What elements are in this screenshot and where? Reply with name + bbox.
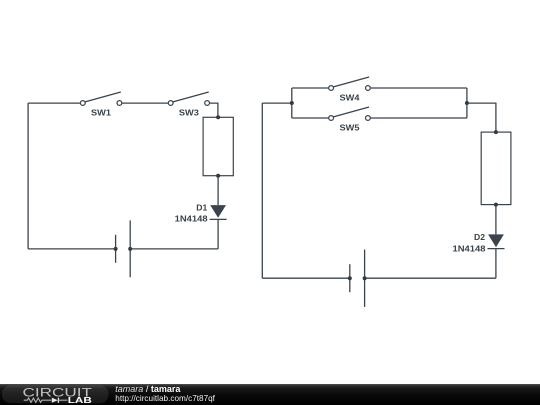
wire top rail to SW4 bbox=[292, 87, 331, 89]
node junction dot at right connector bbox=[465, 101, 469, 105]
node junction dot at V1 positive bbox=[128, 247, 132, 251]
wire bottom rail from SW5 to right connector bbox=[368, 117, 467, 119]
wire diode D2 to bottom rail bbox=[495, 249, 497, 278]
wire left stub to switch bank bbox=[262, 102, 292, 104]
switch SW4 bbox=[329, 77, 371, 103]
anode triangle of D2 bbox=[488, 234, 504, 247]
node junction dot at V2 negative bbox=[348, 276, 352, 280]
wire right connector of switch bank bbox=[466, 88, 468, 118]
terminal 1 of SW1 bbox=[80, 101, 85, 106]
logo resistor zigzag glyph bbox=[24, 398, 52, 402]
resistor R1 bbox=[203, 117, 233, 175]
lever of SW5 bbox=[333, 107, 369, 117]
wire resistor bottom to diode D1 bbox=[217, 176, 219, 205]
svg-text:http://circuitlab.com/c7t87qf: http://circuitlab.com/c7t87qf bbox=[115, 394, 215, 403]
footer logo pill bbox=[2, 385, 109, 403]
svg-text:tamara / tamara: tamara / tamara bbox=[115, 384, 181, 394]
wire left connector of switch bank bbox=[291, 88, 293, 118]
battery V1 bbox=[116, 220, 131, 277]
svg-text:SW4: SW4 bbox=[340, 93, 360, 103]
wire bottom left segment from battery V2 bbox=[262, 277, 350, 279]
svg-text:D1: D1 bbox=[196, 202, 207, 212]
logo diode glyph bbox=[52, 398, 58, 403]
wire between SW1 and SW3 bbox=[119, 102, 170, 104]
lever of SW4 bbox=[333, 77, 369, 87]
node junction dot at V1 negative bbox=[114, 247, 118, 251]
switch SW5 bbox=[329, 107, 371, 133]
svg-text:1N4148: 1N4148 bbox=[175, 214, 208, 224]
wire top-left segment to SW1 bbox=[28, 102, 83, 104]
lever of SW3 bbox=[173, 92, 209, 102]
node junction dot at R2 top bbox=[494, 130, 498, 134]
positive long plate of V2 bbox=[364, 250, 366, 307]
terminal 2 of SW3 bbox=[205, 101, 210, 106]
wire top rail from SW4 to right connector bbox=[368, 87, 467, 89]
terminal 2 of SW1 bbox=[117, 101, 122, 106]
svg-text:1N4148: 1N4148 bbox=[453, 243, 486, 253]
wire right stub to resistor R2 bbox=[467, 103, 496, 132]
resistor R2 bbox=[481, 132, 511, 205]
wire diode D1 to bottom rail bbox=[217, 219, 219, 249]
negative short plate of V2 bbox=[349, 264, 351, 292]
diode D1 bbox=[175, 202, 227, 223]
positive long plate of V1 bbox=[129, 220, 131, 277]
wire bottom right segment to battery V1 bbox=[130, 248, 218, 250]
svg-text:SW3: SW3 bbox=[179, 108, 199, 118]
svg-text:LAB: LAB bbox=[68, 395, 92, 405]
svg-text:SW1: SW1 bbox=[91, 108, 111, 118]
terminal 1 of SW5 bbox=[329, 116, 334, 121]
node junction dot at R2 bottom bbox=[494, 203, 498, 207]
node junction dot at R1 bottom bbox=[216, 174, 220, 178]
terminal 1 of SW4 bbox=[329, 86, 334, 91]
terminal 2 of SW5 bbox=[366, 116, 371, 121]
svg-text:SW5: SW5 bbox=[340, 123, 360, 133]
terminal 1 of SW3 bbox=[168, 101, 173, 106]
battery V2 bbox=[350, 250, 365, 307]
cathode bar of D2 bbox=[488, 248, 505, 250]
wire left vertical of right circuit bbox=[261, 103, 263, 278]
lever of SW1 bbox=[85, 92, 121, 102]
wire resistor R2 bottom to diode D2 bbox=[495, 205, 497, 235]
node junction dot at R1 top bbox=[216, 115, 220, 119]
wire bottom right segment to battery V2 bbox=[365, 277, 496, 279]
wire left vertical of left circuit bbox=[27, 103, 29, 249]
negative short plate of V1 bbox=[115, 235, 117, 263]
switch SW1 bbox=[80, 92, 121, 118]
node junction dot at V2 positive bbox=[363, 276, 367, 280]
switch SW3 bbox=[168, 92, 209, 118]
anode triangle of D1 bbox=[210, 205, 226, 218]
footer bar bbox=[0, 384, 540, 405]
svg-text:D2: D2 bbox=[474, 232, 485, 242]
wire bottom left segment from battery V1 bbox=[28, 248, 116, 250]
cathode bar of D1 bbox=[210, 218, 227, 220]
diode D2 bbox=[453, 232, 505, 253]
node junction dot at left connector bbox=[290, 101, 294, 105]
wire bottom rail to SW5 bbox=[292, 117, 331, 119]
wire SW3 to resistor top corner bbox=[207, 103, 218, 117]
terminal 2 of SW4 bbox=[366, 86, 371, 91]
